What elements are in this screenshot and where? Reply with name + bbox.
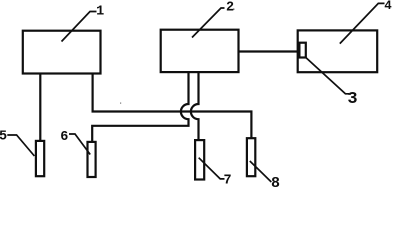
svg-text:7: 7 — [224, 174, 232, 189]
svg-text:6: 6 — [60, 130, 68, 145]
svg-text:3: 3 — [347, 90, 357, 109]
svg-text:2: 2 — [226, 1, 234, 16]
svg-text:1: 1 — [96, 4, 104, 19]
svg-text:5: 5 — [0, 130, 7, 145]
svg-text:8: 8 — [271, 175, 280, 192]
svg-text:4: 4 — [384, 0, 392, 13]
